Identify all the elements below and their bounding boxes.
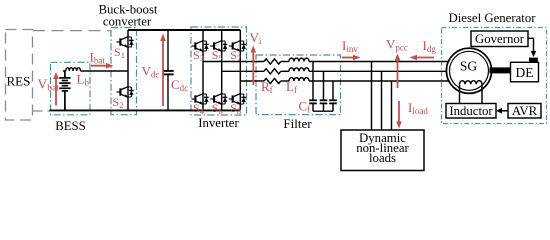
- transistor S1 (IGBT with diode): [117, 37, 134, 48]
- resistor Rf phase A: [264, 59, 281, 64]
- arrowhead governor to DE: [531, 51, 537, 57]
- diesel generator boundary box: [442, 28, 547, 124]
- load box Dynamic non-linear loads: [341, 130, 424, 171]
- svg-text:Governor: Governor: [475, 32, 525, 46]
- transistor S3: [192, 41, 209, 52]
- transistor S6: [210, 94, 227, 105]
- transistor S7: [229, 41, 246, 52]
- svg-text:RES: RES: [7, 74, 31, 89]
- arrow Idg: [410, 55, 435, 61]
- wire phase B resistor to coil: [281, 70, 289, 72]
- inverter leg B wire: [221, 30, 223, 110]
- inverter boundary box: [191, 27, 247, 115]
- svg-text:Filter: Filter: [283, 116, 312, 131]
- svg-text:SG: SG: [460, 59, 478, 74]
- RES block dashed box: [6, 30, 33, 121]
- wire phase A to generator: [309, 61, 451, 63]
- wire governor to DE: [528, 38, 534, 52]
- wire phase C to generator: [309, 80, 451, 82]
- transistor S2 (IGBT with diode): [117, 87, 134, 98]
- arrow Iload: [396, 101, 402, 129]
- generator field winding coil: [460, 81, 483, 85]
- filter boundary box: [256, 55, 341, 115]
- arrowhead AVR to inductor: [496, 108, 502, 114]
- wire AVR to inductor: [501, 110, 508, 112]
- transistor S5: [210, 41, 227, 52]
- arrow Vpcc: [395, 54, 401, 89]
- arrow Ibat: [91, 63, 114, 69]
- arrow Vi: [251, 46, 257, 86]
- inductor Lf phase B: [289, 68, 309, 71]
- wire bottom rail: [50, 109, 241, 111]
- inductor box: [446, 104, 496, 119]
- svg-text:AVR: AVR: [512, 104, 538, 118]
- wire field winding to inductor box right: [481, 84, 483, 103]
- wire top rail: [128, 29, 240, 31]
- inductor Lf phase C: [289, 78, 309, 81]
- generator SG circle: [446, 48, 491, 93]
- battery B1: [59, 71, 70, 111]
- svg-text:Diesel Generator: Diesel Generator: [448, 11, 536, 25]
- svg-text:BESS: BESS: [55, 119, 86, 133]
- wire phase A resistor to coil: [281, 61, 289, 63]
- wire dashed RES to BESS (bottom): [33, 110, 50, 112]
- wire battery top to coil: [63, 70, 66, 72]
- capacitor Cdc: [162, 30, 173, 110]
- svg-text:loads: loads: [369, 151, 396, 165]
- transistor S4: [192, 94, 209, 105]
- svg-text:Inductor: Inductor: [449, 104, 493, 118]
- shaft SG to DE: [490, 67, 512, 73]
- wire load drop A: [371, 62, 373, 131]
- inverter leg C wire: [239, 30, 241, 110]
- resistor Rf phase C: [264, 78, 281, 83]
- BESS boundary box: [51, 62, 91, 115]
- wire load drop B: [381, 71, 383, 130]
- inductor Lb coil: [66, 68, 81, 71]
- transistor S8: [229, 94, 246, 105]
- governor box: [471, 31, 528, 47]
- resistor Rf phase B: [264, 69, 281, 74]
- wire coil to buck-boost leg: [81, 70, 129, 72]
- wire phase C resistor to coil: [281, 80, 289, 82]
- wire load drop C: [391, 81, 393, 130]
- arrow Iinv: [342, 55, 361, 61]
- DE box: [511, 62, 539, 82]
- buck-boost leg wire: [127, 30, 129, 110]
- wire field winding to inductor box left: [459, 84, 461, 103]
- svg-text:DE: DE: [516, 65, 534, 80]
- buck-boost converter boundary box: [111, 28, 137, 115]
- wire phase C from leg to resistor: [240, 80, 264, 82]
- capacitor Cf 3: [329, 81, 337, 111]
- wire phase B from leg to resistor: [222, 70, 264, 72]
- capacitor Cf 2: [320, 71, 328, 111]
- svg-text:converter: converter: [103, 15, 152, 29]
- inverter leg A wire: [202, 30, 204, 110]
- AVR box: [508, 104, 541, 119]
- arrow Vdc: [160, 34, 166, 107]
- inductor Lf phase A: [289, 58, 309, 61]
- wire dashed RES to buck-boost (top): [33, 30, 111, 32]
- capacitor Cf 1: [309, 62, 317, 112]
- wire phase A from leg to resistor: [203, 61, 264, 63]
- svg-text:Inverter: Inverter: [198, 116, 239, 130]
- node coupling square on DE: [529, 58, 538, 63]
- arrow Vbat: [53, 72, 59, 106]
- wire phase B to generator: [309, 70, 448, 72]
- wire capacitor common bus: [313, 110, 333, 112]
